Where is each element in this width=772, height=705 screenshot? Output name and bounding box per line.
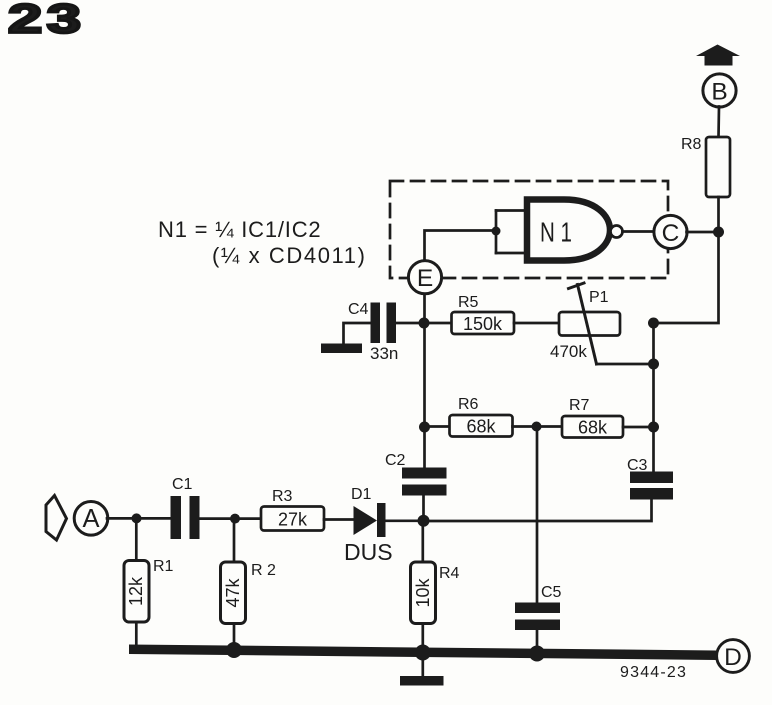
svg-text:470k: 470k	[550, 342, 587, 361]
svg-text:R7: R7	[569, 397, 590, 414]
wire R6 to mid junction	[513, 425, 563, 428]
svg-text:R 2: R 2	[251, 562, 276, 579]
node B	[703, 74, 736, 107]
svg-text:C5: C5	[541, 584, 562, 601]
node D	[717, 640, 750, 673]
svg-text:R4: R4	[439, 565, 460, 582]
svg-text:DUS: DUS	[344, 539, 393, 565]
wire C to right column	[687, 231, 719, 234]
svg-text:N 1: N 1	[540, 217, 572, 248]
wire A to C1	[107, 517, 171, 520]
resistor R3	[261, 507, 324, 531]
junction R6 row at E column	[419, 422, 430, 433]
junction P1 right	[648, 318, 659, 329]
junction bus at C5	[529, 646, 545, 662]
wire P1 wiper to right column	[597, 363, 654, 366]
svg-text:(¼ x CD4011): (¼ x CD4011)	[212, 243, 367, 268]
wire R7 to right column	[623, 426, 654, 429]
svg-text:27k: 27k	[278, 510, 308, 530]
wire C5 column top	[536, 427, 539, 603]
gate output bubble	[611, 226, 623, 238]
capacitor C5 plates	[515, 603, 560, 631]
svg-text:D: D	[724, 644, 742, 671]
op-amp/gate N1 body	[527, 200, 610, 261]
wire C4 right plate to junction	[396, 322, 452, 325]
svg-text:C2: C2	[385, 452, 406, 469]
wire R8 down and left to P1 column	[654, 197, 719, 323]
svg-text:23: 23	[8, 0, 85, 42]
wire R4 junction to ground	[421, 655, 424, 676]
resistor R1	[124, 561, 149, 623]
svg-text:C: C	[662, 220, 680, 247]
node A	[74, 502, 108, 536]
junction bus at R2	[226, 642, 242, 658]
wire R1 bottom	[135, 622, 138, 651]
wire junction down to R4	[421, 521, 424, 562]
wire C3 down and left to D1 junction	[424, 500, 652, 522]
wire C5 column bottom	[536, 630, 539, 651]
resistor R4	[411, 562, 436, 624]
diode D1 cathode bar	[377, 503, 386, 537]
wire gate output to C	[623, 230, 655, 233]
svg-text:C4: C4	[348, 301, 369, 318]
ground bar under R4	[400, 676, 444, 686]
svg-text:47k: 47k	[223, 577, 243, 607]
capacitor C3 plates	[630, 472, 673, 500]
svg-text:33n: 33n	[370, 344, 398, 363]
svg-text:10k: 10k	[413, 577, 433, 607]
resistor R7	[562, 416, 623, 438]
node E	[408, 261, 441, 294]
wire E to gate inputs	[425, 231, 497, 262]
junction bus at R4	[415, 645, 431, 661]
junction at R2 column	[230, 514, 240, 524]
junction R7 right	[648, 422, 659, 433]
resistor R8	[706, 137, 730, 197]
wire R2 bottom	[233, 624, 236, 651]
svg-text:12k: 12k	[126, 576, 146, 606]
dashed box around N1	[390, 181, 668, 278]
svg-text:R5: R5	[458, 294, 479, 311]
junction at E column / R5 row	[419, 318, 430, 329]
svg-text:E: E	[417, 265, 433, 292]
wire R4 bottom	[421, 624, 424, 653]
wire R5 to P1	[514, 322, 559, 325]
potentiometer P1 body	[559, 312, 620, 336]
svg-text:C1: C1	[172, 476, 193, 493]
wire gate input stub bottom	[496, 252, 527, 255]
junction wiper	[648, 359, 659, 370]
ground bar at C4	[321, 344, 362, 354]
diode D1 triangle	[354, 506, 378, 535]
resistor R5	[452, 312, 515, 334]
capacitor C4 plates	[371, 303, 397, 344]
bottom bus wire	[129, 645, 716, 661]
svg-text:A: A	[82, 505, 99, 533]
junction at gate inputs	[492, 227, 501, 236]
capacitor C1 plates	[171, 496, 200, 539]
junction between R6 and R7	[532, 422, 542, 432]
wire right column down to C3	[652, 323, 655, 472]
page number 23	[8, 0, 85, 42]
svg-text:C3: C3	[627, 457, 648, 474]
svg-text:9344-23: 9344-23	[620, 664, 687, 681]
wire C2 down to A row	[422, 496, 425, 522]
wire B to R8	[717, 107, 720, 138]
svg-text:B: B	[711, 78, 727, 105]
junction at C / R8	[713, 227, 724, 238]
wire R2 column	[233, 519, 236, 562]
svg-text:R3: R3	[272, 488, 293, 505]
wire to R6	[425, 425, 450, 428]
wire R3 to D1	[324, 518, 354, 521]
wire D1 to junction	[386, 519, 424, 522]
wire E column down	[423, 294, 426, 468]
svg-text:150k: 150k	[463, 314, 503, 334]
svg-text:N1 = ¼ IC1/IC2: N1 = ¼ IC1/IC2	[158, 217, 321, 242]
wire gate input stub top	[496, 209, 527, 212]
junction at R1 column	[132, 513, 142, 523]
wire C4 left plate to ground	[344, 323, 371, 344]
P1 wiper diagonal	[578, 285, 597, 365]
node C	[654, 215, 687, 248]
input arrow	[46, 496, 67, 541]
svg-text:R1: R1	[153, 558, 174, 575]
supply arrow	[696, 45, 740, 66]
svg-text:68k: 68k	[466, 417, 496, 437]
svg-text:R6: R6	[458, 396, 479, 413]
wire C1 to R3	[200, 517, 262, 520]
svg-text:P1: P1	[589, 289, 609, 306]
P1 wiper tick	[569, 283, 585, 289]
svg-text:D1: D1	[351, 486, 372, 503]
resistor R6	[450, 415, 513, 437]
resistor R2	[221, 562, 246, 624]
svg-text:68k: 68k	[578, 418, 608, 438]
svg-text:R8: R8	[681, 136, 702, 153]
wire input connector vertical	[495, 211, 498, 254]
capacitor C2 plates	[402, 468, 447, 496]
wire R1 column	[135, 518, 138, 562]
junction D1 / C2 / R4	[418, 515, 430, 527]
